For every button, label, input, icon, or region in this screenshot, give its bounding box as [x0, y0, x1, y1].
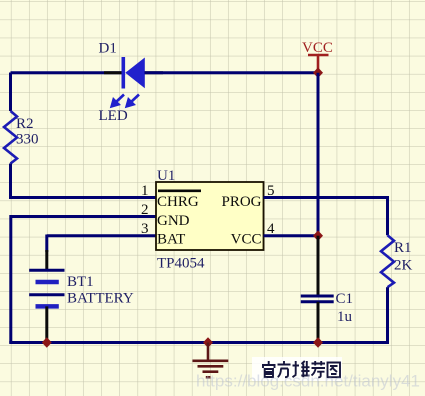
svg-text:R2: R2: [16, 116, 34, 132]
wire bottom rail: [9, 341, 389, 344]
wire diode pins: [104, 71, 163, 74]
svg-text:2K: 2K: [394, 258, 413, 274]
power symbol VCC: [308, 55, 329, 73]
LED arrow 1: [111, 95, 125, 108]
annotation 官方推荐图: [262, 361, 340, 377]
wire pin 4 (VCC) to rail: [264, 234, 319, 237]
推: [293, 361, 310, 377]
battery BT1 plate 2 (short thick): [36, 280, 59, 285]
荐: [312, 361, 326, 377]
battery pin bottom: [45, 306, 48, 343]
svg-text:CHRG: CHRG: [157, 194, 199, 210]
pin name CHRG with overline: [158, 190, 201, 193]
svg-text:GND: GND: [157, 213, 190, 229]
官: [262, 361, 276, 377]
svg-text:LED: LED: [99, 108, 128, 124]
svg-text:TP4054: TP4054: [157, 256, 205, 272]
方: [278, 361, 291, 377]
node pin4 junction: [313, 230, 323, 241]
svg-text:1u: 1u: [337, 309, 353, 325]
node ground junction: [203, 337, 213, 348]
svg-text:D1: D1: [99, 41, 117, 57]
wire R1 bottom to bottom rail: [386, 287, 389, 343]
svg-text:VCC: VCC: [302, 40, 333, 56]
node battery junction: [42, 337, 52, 348]
battery BT1 plate 1 (long): [29, 269, 64, 272]
svg-text:1: 1: [141, 183, 149, 199]
diode D1 triangle: [125, 58, 145, 89]
图: [328, 363, 341, 378]
svg-text:BT1: BT1: [67, 274, 94, 290]
svg-text:https://blog.csdn.net/tianyly4: https://blog.csdn.net/tianyly41: [196, 372, 420, 391]
svg-text:BATTERY: BATTERY: [67, 291, 134, 307]
svg-text:R1: R1: [394, 240, 412, 256]
battery pin top: [45, 250, 48, 270]
battery BT1 plate 4 (short thick): [36, 304, 59, 309]
wire top-left horizontal: [11, 71, 123, 74]
wire pin 3 (BAT) to battery: [47, 235, 156, 253]
resistor R2: [4, 111, 17, 164]
wire VCC rail vertical down to pin 4: [317, 73, 320, 236]
wire left rail lower segment to pin 1: [9, 164, 156, 199]
wire left rail upper segment: [9, 73, 12, 112]
wire diode to VCC junction: [145, 71, 319, 74]
svg-text:3: 3: [141, 221, 149, 237]
wire C1 bottom to bottom rail: [317, 302, 320, 344]
svg-text:330: 330: [16, 132, 39, 148]
diode D1 cathode bar: [122, 57, 126, 89]
wire pin 5 (PROG) to right rail: [264, 196, 390, 235]
svg-text:C1: C1: [336, 291, 354, 307]
svg-text:PROG: PROG: [221, 194, 261, 210]
node C1 junction: [313, 337, 323, 348]
svg-text:BAT: BAT: [157, 232, 185, 248]
LED arrow 2: [126, 95, 140, 108]
node VCC junction: [313, 67, 323, 78]
svg-text:U1: U1: [157, 168, 175, 184]
svg-text:VCC: VCC: [231, 232, 262, 248]
svg-text:2: 2: [141, 202, 149, 218]
IC U1 body: [156, 182, 264, 250]
resistor R1: [381, 235, 394, 287]
annotation background box: [252, 357, 342, 381]
ground symbol: [193, 343, 229, 378]
battery BT1 plate 3 (long): [29, 293, 64, 296]
capacitor C1 plate top: [301, 295, 334, 298]
wire VCC rail to capacitor C1: [317, 236, 320, 296]
capacitor C1 plate bottom: [301, 300, 334, 303]
wire pin 2 (GND) to left and down to bottom: [11, 215, 156, 344]
